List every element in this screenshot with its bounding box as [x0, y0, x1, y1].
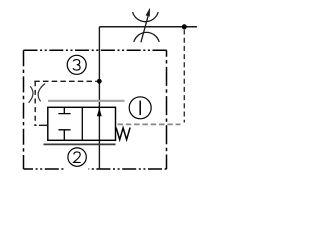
- blocked port T top (left cell): [58, 107, 70, 113]
- valve divider: [81, 107, 83, 140]
- junction dot on main line: [97, 79, 102, 84]
- pilot line (dashed) vertical through orifice: [34, 81, 36, 125]
- needle valve arrowhead: [146, 8, 150, 17]
- spring W at right of valve (drawn as zigzag): [116, 128, 130, 140]
- pilot line (dashed) from main line to orifice, top of pilot branch: [34, 80, 97, 82]
- junction dot at top right: [182, 24, 187, 29]
- port 3 label (circled 3): [67, 55, 86, 74]
- port 2 label white backdrop mask: [66, 146, 89, 170]
- pilot line (dashed gray) horizontal to spring end: [118, 123, 181, 125]
- flow arrow in right cell: [97, 108, 102, 117]
- port 2 label (circled 2): [68, 148, 86, 166]
- needle valve bottom arc: [134, 32, 159, 42]
- pilot line (dashed) vertical from junction dot: [183, 30, 185, 123]
- needle valve (adjustable restrictor) top arc: [133, 12, 159, 22]
- needle valve adjustment arrow shaft: [141, 14, 149, 42]
- valve body (2-position spool): [48, 107, 116, 140]
- proportional bar below valve: [44, 143, 116, 145]
- envelope (component boundary, dash-dot) top edge: [24, 49, 167, 51]
- proportional bar above valve (gray): [48, 100, 125, 102]
- pilot orifice right arc: [38, 84, 45, 102]
- envelope bottom edge: [24, 168, 167, 170]
- pilot orifice left arc: [29, 86, 33, 103]
- pilot line (dashed) into valve left port: [34, 124, 48, 126]
- envelope right edge: [166, 50, 168, 169]
- wire: top horizontal line to needle valve: [99, 26, 197, 28]
- wire: main vertical line port3 to port2: [98, 27, 100, 169]
- port 1 label (circled 1, plain bar glyph): [129, 97, 151, 119]
- envelope left edge: [23, 50, 25, 169]
- blocked port T bottom (left cell): [58, 130, 70, 141]
